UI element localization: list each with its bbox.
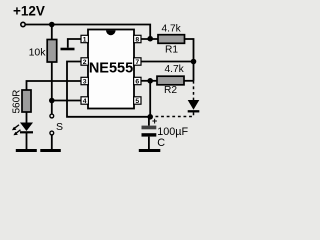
ground near pin1 — [61, 48, 75, 51]
resistor 10k — [47, 40, 57, 63]
LED D — [12, 123, 33, 150]
wire pin1 to ground — [68, 39, 81, 48]
pin 1 box — [81, 35, 88, 43]
resistor R1 — [158, 35, 185, 44]
wire pin6 junction down to cap junction — [149, 81, 151, 117]
svg-text:2: 2 — [83, 59, 87, 66]
resistor 560R — [22, 90, 31, 112]
wire pin6 row — [141, 80, 157, 82]
svg-text:+12V: +12V — [13, 4, 45, 19]
pin 4 box — [81, 97, 88, 105]
emission arrows — [14, 125, 20, 129]
node junction Vcc/R1 — [147, 36, 153, 42]
junction rail/10k — [49, 22, 55, 28]
wire R2 right vertical — [193, 62, 195, 81]
svg-text:+: + — [152, 116, 157, 126]
pin 5 box — [134, 97, 141, 105]
svg-text:C: C — [157, 137, 165, 149]
wire dashed diode branch — [193, 81, 195, 100]
svg-text:3: 3 — [83, 78, 87, 85]
svg-text:R2: R2 — [164, 85, 177, 96]
svg-text:7: 7 — [135, 59, 139, 66]
wire pin7 row — [141, 61, 194, 63]
pin 7 box — [134, 58, 141, 66]
wire R1 right to pin7 row — [185, 39, 194, 62]
svg-text:1: 1 — [83, 36, 87, 43]
ground under capacitor — [139, 149, 161, 152]
node junction pin6/R2/C — [147, 78, 153, 84]
node junction R1/R2/diode — [191, 59, 197, 65]
wire dashed diode to cap junction — [153, 113, 194, 117]
svg-text:560R: 560R — [11, 90, 22, 114]
node junction cap — [147, 114, 153, 120]
svg-text:4: 4 — [83, 98, 87, 105]
capacitor C 100uF — [142, 116, 189, 149]
svg-text:R1: R1 — [165, 45, 178, 56]
svg-text:4.7k: 4.7k — [165, 64, 185, 75]
wire pin4 row — [52, 100, 82, 102]
pin 3 box — [81, 77, 88, 85]
resistor R2 — [157, 76, 184, 85]
node junction 10k/switch/pin4 — [49, 98, 55, 104]
svg-text:5: 5 — [135, 98, 139, 105]
wire 560R to LED — [26, 112, 28, 123]
svg-text:8: 8 — [135, 36, 139, 43]
svg-text:NE555: NE555 — [89, 61, 133, 77]
switch S — [50, 101, 63, 150]
wire 10k top lead — [51, 25, 53, 40]
svg-text:4.7k: 4.7k — [162, 24, 182, 35]
op IC NE555 body — [88, 30, 134, 109]
ground under switch — [40, 149, 61, 152]
diode (optional) — [188, 100, 200, 111]
wire pin3 row to 560R — [27, 81, 82, 90]
wire 10k bottom lead — [51, 62, 53, 101]
terminal +12V — [21, 22, 25, 26]
svg-text:S: S — [56, 121, 63, 133]
notch — [106, 30, 116, 35]
pin 8 box — [134, 35, 141, 43]
wire pin2 to cap junction — [67, 62, 150, 117]
pin 2 box — [81, 58, 88, 66]
ground under LED — [16, 149, 37, 152]
svg-text:6: 6 — [135, 78, 139, 85]
wire pin8 row — [141, 38, 158, 40]
wire +12V rail top — [25, 25, 150, 39]
svg-text:10k: 10k — [29, 47, 47, 59]
pin 6 box — [134, 77, 141, 85]
wire R2 right lead — [184, 80, 194, 82]
